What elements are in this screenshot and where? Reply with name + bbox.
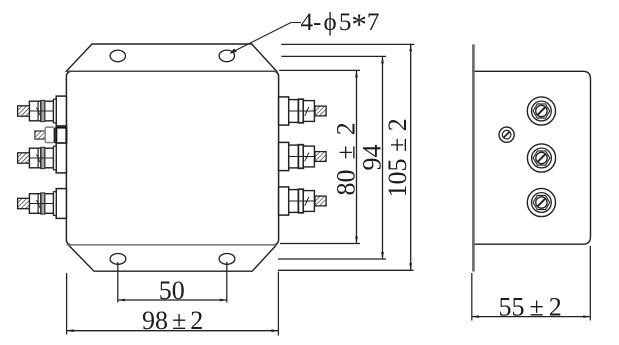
- dimension 55±2: [472, 246, 591, 321]
- side screw terminal 3: [527, 188, 555, 216]
- right terminal 2: [279, 142, 327, 170]
- dimension 98±2: [67, 272, 279, 336]
- left terminal 4: [18, 189, 67, 219]
- left small terminal 2: [35, 127, 67, 143]
- top mounting flange: [66, 44, 276, 71]
- svg-text:55±2: 55±2: [499, 293, 562, 322]
- dimension line 80±2: [355, 70, 358, 243]
- body bottom edge overlap line: [66, 244, 276, 246]
- svg-text:50: 50: [159, 276, 185, 305]
- svg-text:4-ϕ5*7: 4-ϕ5*7: [301, 7, 380, 42]
- side flange plate (edge-on): [472, 44, 475, 271]
- side screw terminal 1: [527, 97, 555, 125]
- svg-text:105±2: 105±2: [383, 118, 412, 197]
- side small screw: [499, 127, 514, 142]
- bottom mounting flange: [69, 245, 277, 271]
- svg-text:80±2: 80±2: [332, 122, 361, 195]
- svg-text:98±2: 98±2: [142, 306, 203, 335]
- bottom mounting hole left: [110, 254, 126, 265]
- dimension 50: [118, 262, 227, 303]
- top mounting hole left: [110, 50, 125, 62]
- extension lines bottom: [278, 244, 414, 271]
- dimension line 105±2: [409, 44, 412, 270]
- side body: [472, 71, 591, 244]
- filter body: [66, 71, 278, 245]
- right terminal 3: [279, 187, 327, 215]
- bottom mounting hole right: [219, 254, 235, 265]
- dimension line 94: [381, 56, 384, 259]
- left terminal 3: [18, 143, 67, 173]
- right terminal 1: [279, 97, 327, 125]
- body top edge overlap line: [66, 70, 276, 72]
- extension lines top: [279, 44, 414, 70]
- top mounting hole right: [219, 50, 234, 62]
- leader line: [230, 23, 302, 54]
- side screw terminal 2: [527, 144, 555, 172]
- left terminal 1: [18, 96, 67, 126]
